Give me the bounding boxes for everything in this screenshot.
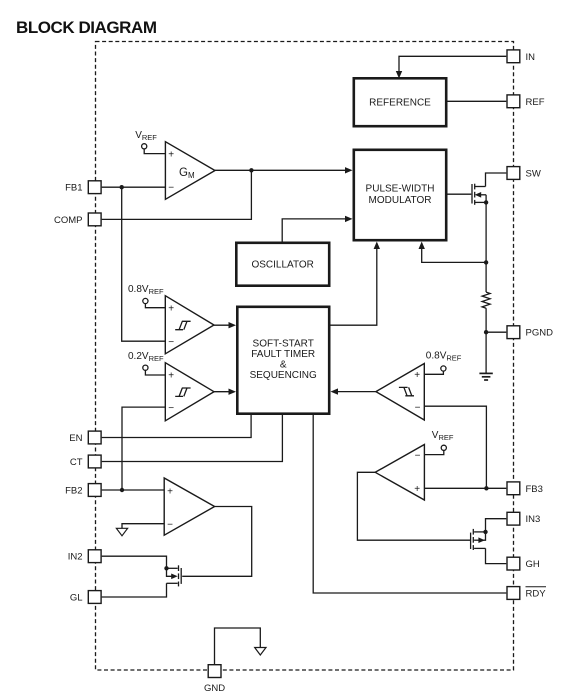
svg-text:MODULATOR: MODULATOR (369, 195, 432, 206)
pin CT (70, 455, 101, 468)
wire Gm output to PWM (with arrow) (215, 167, 353, 173)
svg-text:FB2: FB2 (65, 486, 82, 497)
pin RDY (507, 587, 546, 600)
wire PWM to Q1 gate (448, 193, 472, 195)
node VREF terminal of Gm (135, 130, 165, 154)
node PGND junction (484, 330, 488, 334)
svg-text:GL: GL (70, 593, 83, 604)
op-amp U1 Gm error amplifier (165, 142, 215, 200)
pin GH (507, 557, 540, 570)
node FB2 junction (120, 488, 124, 492)
block PULSE-WIDTH MODULATOR (354, 150, 446, 240)
wire Q3 source to GH pin (486, 548, 507, 563)
transistor Q2 (IN2/GL MOSFET) (167, 565, 182, 586)
svg-text:+: + (168, 371, 174, 382)
pin GL (70, 591, 101, 604)
pin FB2 (65, 484, 101, 497)
pin IN2 (68, 550, 101, 563)
pin REF (507, 95, 545, 108)
node Gm output junction (249, 168, 253, 172)
svg-text:IN2: IN2 (68, 552, 83, 563)
svg-text:FB3: FB3 (526, 484, 543, 495)
wire FB1 junction down to comparator C1 inverting input (122, 187, 166, 341)
pin SW (507, 167, 541, 180)
wire current sense to PWM bottom (with arrow) (419, 242, 487, 263)
svg-text:SW: SW (526, 169, 541, 180)
node 0.8VREF terminal of C1 (128, 284, 165, 308)
block SOFT-START FAULT TIMER & SEQUENCING (237, 307, 329, 414)
node 0.8VREF terminal of C3 (424, 350, 461, 374)
node Q1 source junction (484, 200, 488, 204)
wire Q1 source down to resistor (485, 202, 487, 292)
wire OSCILLATOR to PWM (with arrow) (282, 216, 352, 242)
svg-text:FB1: FB1 (65, 183, 82, 194)
svg-text:+: + (168, 149, 174, 160)
svg-text:GND: GND (204, 683, 225, 694)
svg-text:COMP: COMP (54, 215, 83, 226)
resistor R1 (482, 292, 490, 308)
wire FB2 to amplifier A2 (102, 489, 165, 491)
node current sense tap (484, 260, 488, 264)
pin EN (69, 431, 101, 444)
svg-text:IN: IN (526, 52, 536, 63)
comparator C1 0.8VREF (165, 296, 214, 354)
ground at A2 input (open triangle) (116, 528, 127, 536)
wire C2 output to SOFT-START (with arrow) (214, 389, 236, 395)
wire Q1 drain to SW pin (486, 173, 507, 187)
wire FB1 to Gm inverting input (102, 186, 166, 188)
ground at GND net (open triangle) (255, 648, 266, 656)
wire A2 output to Q2 gate (182, 507, 252, 577)
pin COMP (54, 213, 101, 226)
wire EN to SOFT-START (102, 415, 251, 438)
svg-text:EN: EN (69, 433, 82, 444)
svg-text:−: − (415, 403, 421, 414)
block OSCILLATOR (236, 243, 329, 286)
svg-text:−: − (415, 451, 421, 462)
svg-text:−: − (168, 337, 174, 348)
wire SOFT-START output to PWM bottom (with arrow) (331, 242, 381, 326)
comparator C2 0.2VREF (165, 363, 214, 421)
svg-text:FAULT TIMER: FAULT TIMER (251, 349, 315, 360)
svg-text:REFERENCE: REFERENCE (369, 98, 431, 109)
svg-text:&: & (280, 360, 287, 371)
wire IN pin to REFERENCE (with arrow) (396, 56, 507, 78)
svg-text:−: − (167, 519, 173, 530)
svg-text:PGND: PGND (526, 328, 554, 339)
node Q2 drain junction (164, 566, 168, 570)
svg-text:RDY: RDY (526, 589, 547, 600)
svg-text:+: + (414, 484, 420, 495)
svg-text:+: + (414, 370, 420, 381)
transistor Q1 (SW MOSFET) (472, 184, 486, 205)
svg-text:+: + (167, 486, 173, 497)
node 0.2VREF terminal of C2 (128, 351, 165, 375)
pin FB3 (507, 482, 543, 495)
wire A2 inverting input to ground (122, 524, 164, 529)
wire C3 output to SOFT-START right side (with arrow) (331, 388, 376, 394)
svg-text:GH: GH (526, 559, 540, 570)
wire SOFT-START to RDY pin (313, 415, 506, 593)
node VREF terminal of A3 (424, 430, 453, 455)
pin GND (204, 665, 225, 694)
wire COMP to Gm output node (102, 170, 252, 219)
pin PGND (507, 326, 553, 339)
ground (earth) below resistor (479, 373, 492, 380)
node FB1 junction (120, 185, 124, 189)
svg-text:PULSE-WIDTH: PULSE-WIDTH (366, 184, 435, 195)
wire C2 inverting input to FB2 node (122, 407, 165, 490)
transistor Q3 (IN3/GH MOSFET) (471, 529, 486, 550)
svg-text:REF: REF (526, 97, 545, 108)
IC boundary dashed border (96, 42, 514, 671)
svg-text:OSCILLATOR: OSCILLATOR (251, 260, 313, 271)
svg-text:SEQUENCING: SEQUENCING (250, 370, 317, 381)
block REFERENCE (354, 78, 446, 126)
wire IN3 to Q3 (486, 519, 507, 532)
wire to PGND pin (486, 331, 506, 333)
svg-text:IN3: IN3 (526, 514, 541, 525)
pin IN (507, 50, 535, 63)
node Q3 drain junction (483, 530, 487, 534)
comparator C3 0.8VREF (points left) (376, 364, 424, 421)
svg-text:BLOCK DIAGRAM: BLOCK DIAGRAM (16, 18, 157, 37)
wire C3 inverting input to FB3 node (424, 406, 486, 488)
wire IN2 to Q2 drain (102, 556, 167, 568)
svg-text:SOFT-START: SOFT-START (253, 339, 314, 350)
node FB3 junction (484, 486, 488, 490)
svg-text:−: − (168, 182, 174, 193)
wire GND net with ground symbol (215, 628, 261, 664)
pin FB1 (65, 181, 101, 194)
op-amp A3 FB3 amplifier (points left) (375, 445, 424, 501)
op-amp A2 FB2 amplifier (164, 478, 214, 535)
wire C1 output to SOFT-START (with arrow) (214, 322, 236, 328)
wire A3 noninverting input to FB3 pin (424, 487, 506, 489)
svg-text:CT: CT (70, 457, 83, 468)
svg-text:+: + (168, 303, 174, 314)
wire GL to Q2 source (102, 583, 167, 597)
wire REFERENCE to REF pin (448, 100, 507, 102)
wire CT to SOFT-START (102, 415, 283, 462)
wire resistor to ground (485, 308, 487, 373)
wire A3 output to Q3 gate (357, 472, 470, 540)
pin IN3 (507, 512, 540, 525)
svg-text:−: − (168, 403, 174, 414)
